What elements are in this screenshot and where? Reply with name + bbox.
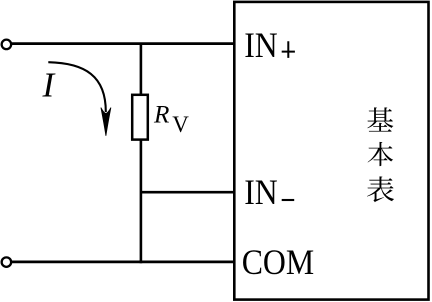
svg-text:V: V (172, 112, 189, 137)
svg-text:IN: IN (244, 25, 278, 65)
svg-text:I: I (42, 66, 57, 105)
svg-text:IN: IN (244, 172, 278, 212)
svg-text:COM: COM (242, 242, 315, 282)
svg-text:R: R (153, 102, 169, 129)
